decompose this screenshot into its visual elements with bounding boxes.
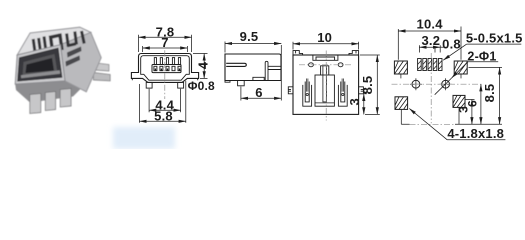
side view latch slot bbox=[226, 63, 246, 66]
dim 10 line bbox=[293, 43, 359, 45]
svg-text:8.5: 8.5 bbox=[360, 76, 375, 95]
rear view right slot dot bbox=[342, 93, 344, 95]
rear view top right ear bbox=[349, 51, 359, 55]
dim 7 line bbox=[143, 47, 188, 49]
svg-text:6: 6 bbox=[466, 100, 480, 107]
photo: opening inner shade bbox=[23, 54, 58, 76]
dim 4 line bbox=[203, 54, 205, 79]
pad top-left bbox=[394, 61, 407, 74]
svg-text:0.8: 0.8 bbox=[442, 37, 461, 52]
photo: top stamp U1 bbox=[33, 37, 46, 57]
svg-text:7: 7 bbox=[161, 35, 168, 50]
pad top-right center stub bbox=[460, 74, 462, 78]
front view pins (tabs above housing) bbox=[154, 58, 180, 65]
svg-text:3: 3 bbox=[347, 98, 362, 105]
hole left crosshair bbox=[410, 78, 422, 90]
front view right leg bbox=[178, 82, 184, 88]
photo: bottom leg 3 bbox=[60, 89, 71, 108]
rear view center tongue upper bbox=[321, 66, 329, 75]
dim 6 line (footprint) bbox=[480, 84, 482, 124]
dim 3 extension line bbox=[365, 93, 367, 95]
photo: right leg upper bbox=[95, 63, 109, 71]
photo: bottom shadow region bbox=[15, 81, 81, 103]
rear view left tab bbox=[288, 87, 293, 94]
front view pin contacts bbox=[154, 66, 181, 70]
front view pin contact dots bbox=[155, 69, 179, 71]
dim 10 extension lines bbox=[293, 42, 359, 50]
rear view top left ear bbox=[293, 51, 303, 55]
photo: top stamp U2 bbox=[50, 34, 62, 53]
dim 3.2 extension lines bbox=[419, 45, 440, 52]
label underline 5-0.5x1.5 bbox=[467, 43, 522, 45]
dim 8.5 line bbox=[376, 55, 378, 114]
hole right bbox=[442, 80, 450, 88]
dim 7 extension lines bbox=[143, 46, 188, 52]
dim 4.4 line bbox=[149, 109, 181, 111]
photo: front opening dark bbox=[18, 48, 62, 81]
dim 9.5 line bbox=[225, 43, 281, 45]
svg-text:4-1.8x1.8: 4-1.8x1.8 bbox=[447, 126, 504, 141]
dim 4.4 extension lines bbox=[149, 89, 181, 112]
svg-text:8.5: 8.5 bbox=[482, 84, 497, 103]
dim 6 line bbox=[241, 97, 281, 99]
photo: shell right face bbox=[61, 32, 102, 91]
rear view right tab bbox=[359, 87, 364, 94]
photo: opening tongue strip bbox=[21, 70, 60, 78]
top pads row extension bbox=[469, 66, 503, 68]
label underline 2-phi1 bbox=[468, 61, 498, 63]
dim 6 extension lines bbox=[240, 87, 242, 101]
front view left leg bbox=[146, 82, 152, 88]
VIEW 2: side view bbox=[225, 54, 281, 86]
side view leg bbox=[238, 81, 245, 86]
dim 7.8 extension lines bbox=[139, 35, 192, 52]
rear view horizontal centerline bbox=[299, 64, 353, 66]
rear view right slot outer bbox=[338, 85, 347, 106]
front view centerline bbox=[164, 50, 166, 99]
front view pin housing bbox=[152, 65, 181, 73]
pad top-right bbox=[454, 61, 467, 74]
dim 8.5 extension lines bbox=[360, 55, 380, 114]
photo: front face rim bbox=[15, 45, 65, 84]
dim 3.2 line bbox=[419, 46, 440, 48]
photo: right face slot 1 bbox=[67, 47, 82, 58]
svg-text:10.4: 10.4 bbox=[417, 16, 444, 31]
rear view left slot dot bbox=[306, 93, 308, 95]
svg-text:2-Φ1: 2-Φ1 bbox=[467, 49, 496, 63]
photo: bottom leg 2 bbox=[45, 92, 55, 111]
dim 8.5 line (footprint) bbox=[499, 67, 501, 124]
bottom scan tint patch bbox=[113, 127, 175, 149]
VIEW 1: front view bbox=[131, 50, 198, 99]
pad bottom-left center stub bbox=[400, 109, 402, 124]
dim 3 row extension bbox=[466, 99, 475, 101]
pad bottom-right center stub bbox=[458, 107, 460, 124]
leader 5-0.5x1.5 bbox=[443, 44, 467, 60]
dim 7.8 line bbox=[139, 36, 192, 38]
dim 3 line bbox=[363, 94, 365, 115]
svg-text:5.8: 5.8 bbox=[154, 108, 173, 123]
dim 9.5 extension lines bbox=[225, 42, 281, 101]
VIEW 3: rear view bbox=[288, 51, 363, 121]
dim 5.8 line bbox=[140, 120, 186, 122]
VIEW 4: PCB footprint bbox=[392, 53, 484, 123]
side view rear bar bbox=[265, 61, 268, 80]
rear view center tongue base line bbox=[315, 102, 334, 104]
rear view hole left bbox=[309, 63, 314, 67]
rear view right slot pin bbox=[342, 79, 343, 92]
leader 2-phi1 bbox=[452, 62, 469, 78]
rear view center tongue outer bbox=[315, 75, 334, 106]
svg-text:9.5: 9.5 bbox=[240, 29, 259, 44]
svg-text:5-0.5x1.5: 5-0.5x1.5 bbox=[466, 30, 523, 45]
dim 10.4 line bbox=[398, 30, 461, 32]
label underline 4-1.8x1.8 bbox=[447, 139, 505, 141]
small pads hatch bbox=[418, 61, 442, 70]
side view bottom notch bbox=[253, 77, 264, 80]
hole left bbox=[412, 80, 420, 88]
photo: top stamp U3 bbox=[67, 32, 77, 47]
photo: bottom leg 1 bbox=[30, 94, 41, 114]
bottom reference line bbox=[401, 123, 502, 125]
photo: connector 3D image bbox=[15, 27, 110, 113]
footprint horizontal centerline bbox=[392, 83, 484, 85]
rear view vertical centerline bbox=[325, 51, 327, 121]
photo: right leg lower bbox=[93, 73, 110, 81]
rear view left slot outer bbox=[303, 85, 312, 106]
dim 10.4 extension lines bbox=[398, 27, 461, 60]
dim 4 extension lines bbox=[193, 54, 208, 79]
pad bottom-left bbox=[395, 97, 408, 110]
footprint vertical centerline bbox=[430, 53, 432, 123]
svg-text:3.2: 3.2 bbox=[421, 33, 440, 48]
rear view top notch bbox=[313, 55, 338, 60]
svg-text:10: 10 bbox=[317, 30, 332, 45]
dim 5.8 extension lines bbox=[140, 81, 186, 123]
pad top-left center stub bbox=[400, 74, 402, 78]
side view body bbox=[225, 54, 281, 81]
photo: shell top face bbox=[17, 27, 91, 55]
svg-text:4: 4 bbox=[196, 61, 211, 69]
photo: opening core dark bbox=[26, 58, 55, 73]
svg-text:Φ0.8: Φ0.8 bbox=[188, 79, 215, 93]
dim 0.8 tail bbox=[440, 46, 446, 48]
pad bottom-right bbox=[453, 95, 465, 107]
side view front lip bbox=[225, 81, 230, 83]
rear view right slot inner bbox=[341, 82, 345, 102]
dim 3 line (footprint) bbox=[471, 100, 473, 125]
rear view center tongue inner bbox=[323, 66, 327, 102]
photo: right face slot 2 bbox=[66, 56, 81, 67]
rear view hole right bbox=[338, 63, 343, 67]
front view wing stubs bbox=[132, 78, 197, 80]
leader 4-1.8x1.8 bbox=[409, 109, 447, 140]
front view inner shell bbox=[141, 56, 190, 80]
hole right crosshair bbox=[440, 78, 452, 90]
rear view body bbox=[293, 55, 359, 114]
small pad 1 bbox=[418, 59, 442, 71]
front view outer shell bbox=[131, 54, 198, 83]
rear view left slot inner bbox=[305, 82, 309, 102]
svg-text:6: 6 bbox=[255, 85, 262, 100]
photo: top stamp bar bbox=[82, 31, 85, 44]
side view rear step lines bbox=[268, 66, 281, 69]
rear view left slot pin bbox=[307, 79, 308, 92]
